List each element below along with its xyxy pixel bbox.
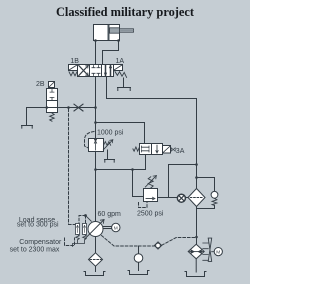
svg-text:2B: 2B xyxy=(36,81,45,88)
svg-text:1B: 1B xyxy=(70,58,79,65)
svg-text:1A: 1A xyxy=(116,58,125,65)
svg-text:60 gpm: 60 gpm xyxy=(98,211,122,218)
svg-text:Classified military project: Classified military project xyxy=(56,5,195,19)
svg-text:set to 2300 max: set to 2300 max xyxy=(10,246,60,253)
svg-text:3A: 3A xyxy=(176,148,185,155)
svg-text:Compensator: Compensator xyxy=(19,239,62,246)
svg-text:2500 psi: 2500 psi xyxy=(137,211,164,218)
svg-text:M: M xyxy=(114,225,118,231)
svg-text:1000 psi: 1000 psi xyxy=(97,130,124,137)
svg-text:M: M xyxy=(216,249,220,255)
svg-text:set to 300 psi: set to 300 psi xyxy=(17,222,59,229)
